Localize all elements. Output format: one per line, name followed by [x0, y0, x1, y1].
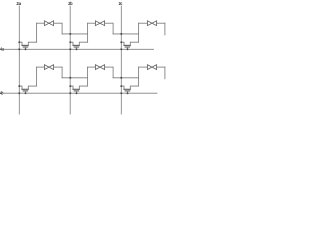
svg-text:4b: 4b — [0, 91, 4, 96]
svg-text:2a: 2a — [16, 1, 21, 6]
svg-text:2c: 2c — [119, 1, 123, 6]
svg-text:4a: 4a — [0, 47, 4, 52]
svg-text:2b: 2b — [68, 1, 72, 6]
